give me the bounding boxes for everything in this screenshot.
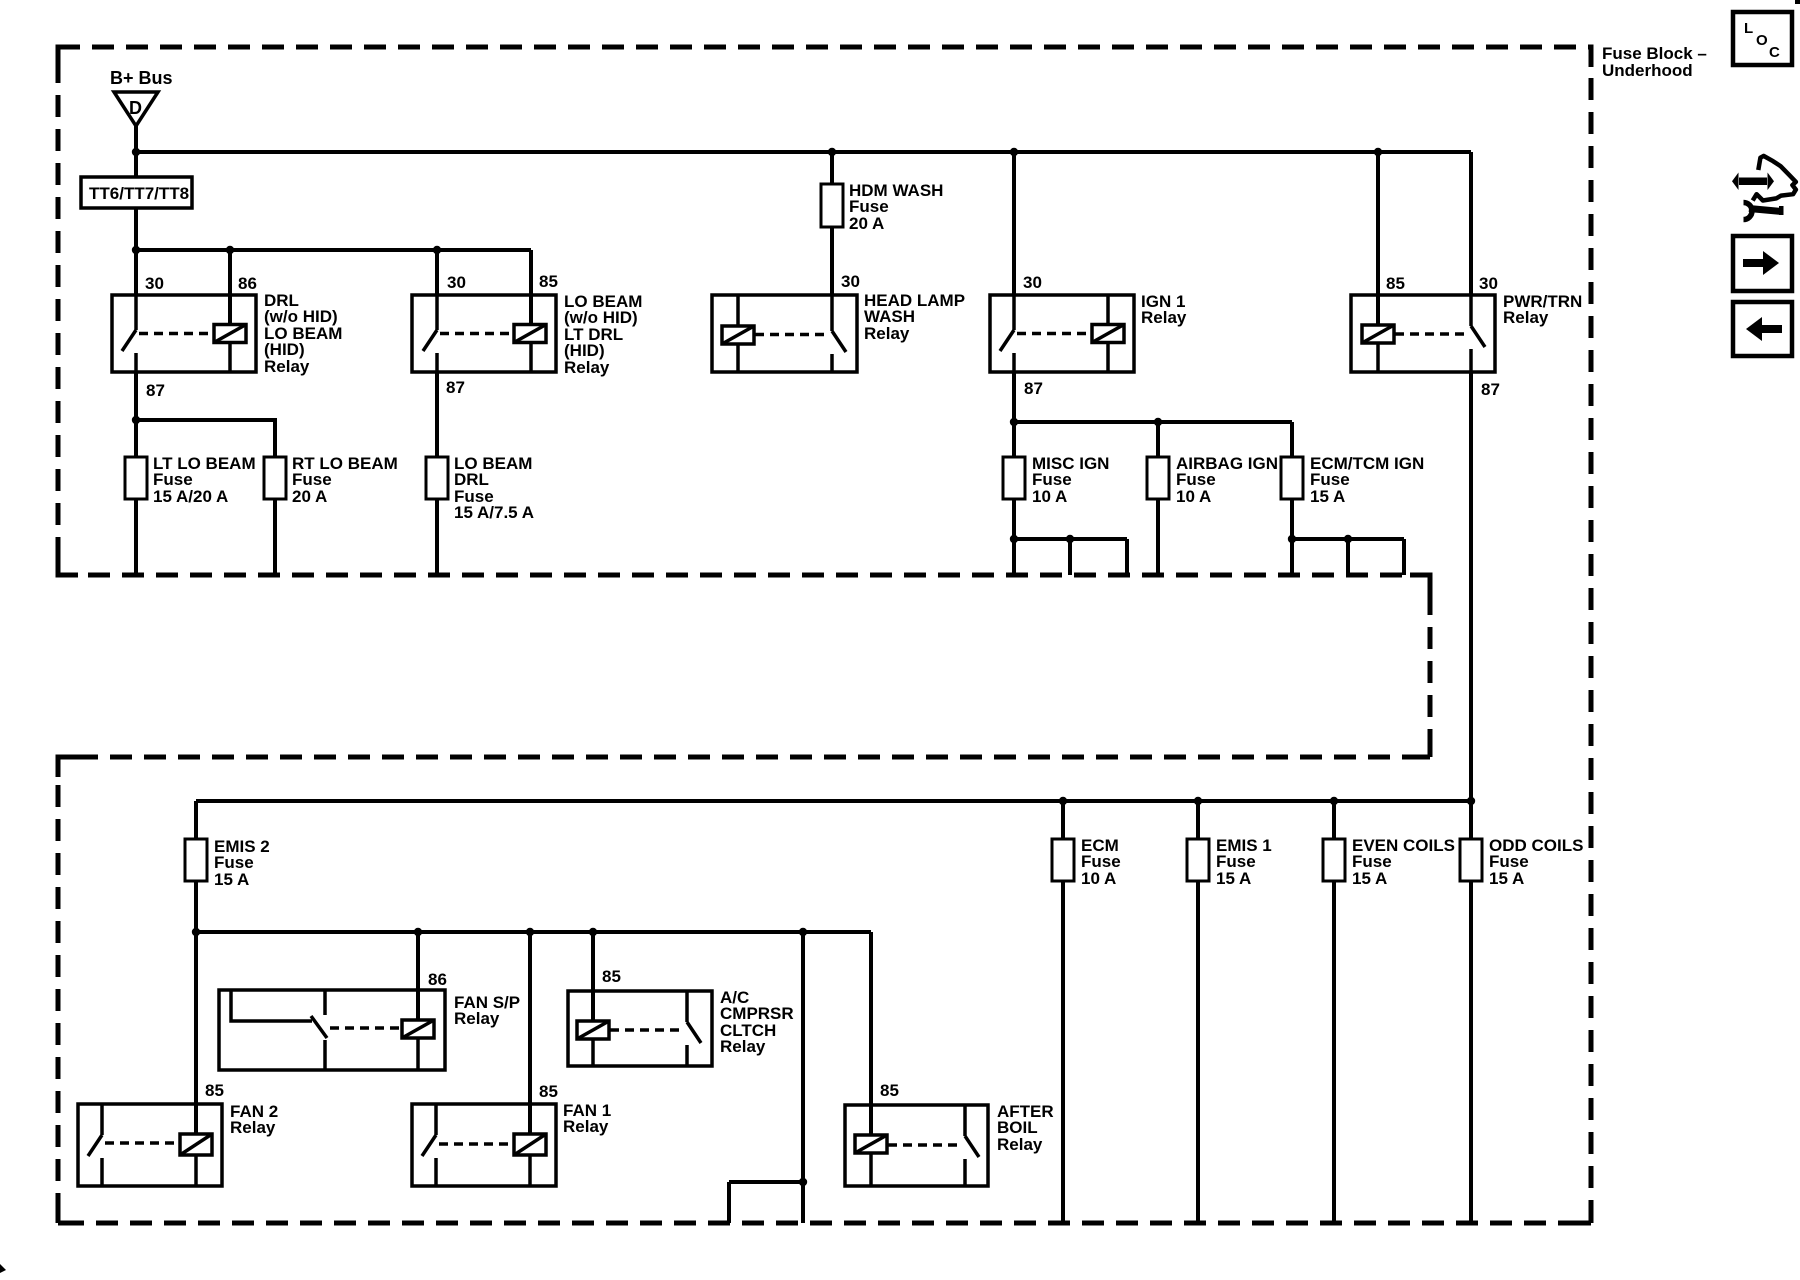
wire ODD COILS fuse bottom bbox=[1469, 881, 1473, 1223]
svg-text:Relay: Relay bbox=[720, 1037, 766, 1056]
svg-text:Relay: Relay bbox=[264, 357, 310, 376]
wire PWR/TRN pin 87 long drop bbox=[1469, 372, 1473, 839]
svg-text:Relay: Relay bbox=[1141, 308, 1187, 327]
corner mark bottom left bbox=[0, 1264, 6, 1273]
svg-text:20 A: 20 A bbox=[849, 214, 884, 233]
svg-text:87: 87 bbox=[446, 378, 465, 397]
wire B+ Bus drop bbox=[134, 126, 138, 152]
svg-text:87: 87 bbox=[1481, 380, 1500, 399]
wire PWR/TRN pin 30 bbox=[1469, 152, 1473, 295]
relay AFTER BOIL bbox=[845, 1105, 988, 1186]
fuse block dashed border bbox=[58, 47, 1591, 1223]
wire bottom branch bbox=[729, 1182, 803, 1223]
svg-text:86: 86 bbox=[238, 274, 257, 293]
wire lower bus bbox=[196, 799, 1471, 803]
svg-text:15 A: 15 A bbox=[1216, 869, 1251, 888]
svg-text:86: 86 bbox=[428, 970, 447, 989]
wire branch to RT LO BEAM fuse bbox=[136, 420, 275, 457]
svg-text:10 A: 10 A bbox=[1176, 487, 1211, 506]
wire AIRBAG IGN fuse bottom bbox=[1156, 499, 1160, 575]
svg-text:B+ Bus: B+ Bus bbox=[110, 68, 173, 88]
wire HDM WASH fuse top bbox=[830, 152, 834, 184]
relay FAN 2 bbox=[78, 1104, 222, 1186]
svg-text:30: 30 bbox=[145, 274, 164, 293]
wire FAN S/P pin 86 bbox=[416, 932, 420, 1020]
wire IGN 1 pin 30 bbox=[1012, 152, 1016, 295]
svg-text:Relay: Relay bbox=[997, 1135, 1043, 1154]
svg-text:15 A/20 A: 15 A/20 A bbox=[153, 487, 228, 506]
relay PWR/TRN bbox=[1351, 295, 1495, 372]
svg-text:15 A: 15 A bbox=[1489, 869, 1524, 888]
wire ECM/TCM lower branch bbox=[1292, 539, 1404, 575]
svg-text:Relay: Relay bbox=[864, 324, 910, 343]
fuse EMIS 2 bbox=[185, 839, 207, 881]
wire DRL pin 87 to fuses bbox=[134, 372, 138, 457]
svg-text:30: 30 bbox=[841, 272, 860, 291]
TT6/TT7/TT8 connector box bbox=[81, 177, 192, 208]
fuse EMIS 1 bbox=[1187, 839, 1209, 881]
svg-text:Relay: Relay bbox=[230, 1118, 276, 1137]
wire DRL pin 30 bbox=[134, 250, 138, 295]
fuse EVEN COILS bbox=[1323, 839, 1345, 881]
fuse ECM/TCM IGN bbox=[1281, 457, 1303, 499]
svg-text:30: 30 bbox=[1023, 273, 1042, 292]
wire branch 87 to AIRBAG and ECM/TCM fuses bbox=[1014, 422, 1292, 457]
wire FAN 1 pin 85 bbox=[528, 932, 532, 1134]
wire DRL pin 86 bbox=[228, 250, 232, 325]
wire lower bus 2 bbox=[196, 930, 871, 934]
svg-text:85: 85 bbox=[205, 1081, 224, 1100]
svg-text:87: 87 bbox=[146, 381, 165, 400]
svg-text:85: 85 bbox=[880, 1081, 899, 1100]
svg-text:15 A: 15 A bbox=[214, 870, 249, 889]
fuse ECM bbox=[1052, 839, 1074, 881]
svg-text:15 A/7.5 A: 15 A/7.5 A bbox=[454, 503, 534, 522]
relay LO BEAM (w/o HID) LT DRL (HID) bbox=[412, 295, 556, 372]
wire MISC IGN fuse bottom bbox=[1012, 499, 1016, 575]
svg-text:87: 87 bbox=[1024, 379, 1043, 398]
wire bus 2 bbox=[136, 248, 531, 252]
relay IGN 1 bbox=[990, 295, 1134, 372]
wire long drop to bottom border bbox=[801, 932, 805, 1223]
wire EMIS 2 fuse top bbox=[194, 801, 198, 839]
wire LO BEAM pin 30 bbox=[435, 250, 439, 295]
icon wiring jump squiggle with double arrow and wrench bbox=[1732, 156, 1796, 220]
wire top bus bbox=[136, 150, 1471, 154]
fuse ODD COILS bbox=[1460, 839, 1482, 881]
wire MISC IGN lower branch bbox=[1014, 539, 1127, 575]
svg-text:15 A: 15 A bbox=[1310, 487, 1345, 506]
fuse MISC IGN bbox=[1003, 457, 1025, 499]
svg-text:20 A: 20 A bbox=[292, 487, 327, 506]
fuse AIRBAG IGN bbox=[1147, 457, 1169, 499]
wire EMIS 1 fuse column bbox=[1196, 801, 1200, 1223]
icon LOC box top right bbox=[1733, 12, 1792, 65]
relay FAN S/P bbox=[219, 990, 445, 1070]
icon right arrow box bbox=[1733, 236, 1792, 291]
svg-text:30: 30 bbox=[1479, 274, 1498, 293]
fuse LT LO BEAM bbox=[125, 457, 147, 499]
svg-text:TT6/TT7/TT8: TT6/TT7/TT8 bbox=[89, 184, 189, 203]
wire IGN 1 pin 87 bbox=[1012, 372, 1016, 457]
relay DRL (w/o HID) LO BEAM (HID) bbox=[112, 295, 256, 372]
svg-text:D: D bbox=[129, 98, 142, 118]
wire PWR/TRN pin 85 bbox=[1376, 152, 1380, 325]
relay HEAD LAMP WASH bbox=[712, 295, 857, 372]
fuse RT LO BEAM bbox=[264, 457, 286, 499]
svg-text:Underhood: Underhood bbox=[1602, 61, 1693, 80]
svg-text:Relay: Relay bbox=[563, 1117, 609, 1136]
svg-text:85: 85 bbox=[602, 967, 621, 986]
node B+ Bus triangle D bbox=[114, 92, 158, 126]
wire LO BEAM DRL fuse bottom bbox=[435, 499, 439, 575]
svg-text:Relay: Relay bbox=[454, 1009, 500, 1028]
wire TT6 drop bbox=[134, 152, 138, 250]
wire A/C relay pin 85 bbox=[591, 932, 595, 1021]
icon left arrow box bbox=[1733, 302, 1792, 356]
svg-text:85: 85 bbox=[539, 272, 558, 291]
fuse LO BEAM DRL bbox=[426, 457, 448, 499]
wire AFTER BOIL pin 85 bbox=[869, 932, 873, 1135]
svg-text:30: 30 bbox=[447, 273, 466, 292]
svg-text:15 A: 15 A bbox=[1352, 869, 1387, 888]
wire EMIS 2 fuse to FAN 2 relay bbox=[194, 881, 198, 1134]
wire HDM WASH fuse to relay pin 30 bbox=[830, 227, 834, 295]
border corner dashes bbox=[58, 47, 1591, 1223]
svg-text:10 A: 10 A bbox=[1032, 487, 1067, 506]
wire ECM/TCM IGN fuse bottom bbox=[1290, 499, 1294, 575]
wire LO BEAM pin 85 bbox=[529, 250, 533, 325]
relay FAN 1 bbox=[412, 1104, 556, 1186]
relay A/C CMPRSR CLTCH bbox=[568, 991, 712, 1066]
wire LT LO BEAM fuse bottom bbox=[134, 499, 138, 575]
svg-text:L: L bbox=[1744, 20, 1753, 37]
svg-text:Relay: Relay bbox=[1503, 308, 1549, 327]
svg-text:85: 85 bbox=[539, 1082, 558, 1101]
fuse HDM WASH 20A bbox=[821, 184, 843, 227]
wire RT LO BEAM fuse bottom bbox=[273, 499, 277, 575]
svg-text:10 A: 10 A bbox=[1081, 869, 1116, 888]
svg-text:Relay: Relay bbox=[564, 358, 610, 377]
corner mark top right bbox=[1795, 0, 1800, 4]
svg-text:O: O bbox=[1756, 32, 1768, 49]
svg-text:C: C bbox=[1769, 44, 1780, 61]
wire ECM fuse column bbox=[1061, 801, 1065, 1223]
wire LO BEAM pin 87 bbox=[435, 372, 439, 457]
wire EVEN COILS fuse column bbox=[1332, 801, 1336, 1223]
svg-text:85: 85 bbox=[1386, 274, 1405, 293]
